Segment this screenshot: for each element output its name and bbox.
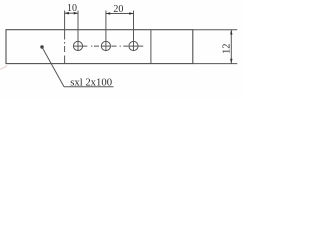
wire: vertical divider line [150,30,152,64]
leader line [42,47,64,87]
extension line hole 3 vertical [133,11,135,52]
wire: horizontal dash-dot centerline [73,45,143,47]
svg-text:10: 10 [67,3,77,14]
hole circle 2 [101,41,110,50]
leader underline [64,86,114,88]
hole circle 3 [129,41,138,50]
extension line hole 1 vertical [77,11,79,52]
svg-text:sxl 2x100: sxl 2x100 [70,77,112,89]
hole circle 1 [73,41,82,50]
leader dot [40,45,43,48]
svg-text:20: 20 [113,4,123,15]
extension line right bottom [193,63,237,65]
node: vertical dash-dot marking line [64,11,66,64]
extension line hole 2 vertical [105,11,107,52]
extension line right top [193,29,237,31]
svg-text:12: 12 [221,44,232,55]
dimension line 10 [65,12,78,14]
dimension line 12 [230,30,232,64]
smudge artifact bottom-left [0,66,7,70]
plate outline [6,30,193,64]
dimension line 20 [106,13,134,15]
